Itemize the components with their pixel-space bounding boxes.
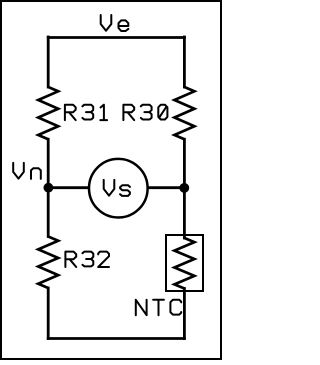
thermistor NTC zigzag	[174, 238, 194, 289]
node Vn junction dot	[44, 183, 54, 193]
label Vn	[13, 163, 41, 179]
wire right lower	[183, 289, 186, 339]
label R30	[123, 105, 167, 120]
label Ve	[101, 15, 129, 31]
wire right middle	[183, 139, 186, 238]
wire left upper	[47, 37, 50, 87]
wire bottom	[48, 337, 184, 340]
wire Vn node to Vs	[48, 186, 88, 189]
border frame (decorative)	[1, 1, 221, 359]
label R32	[65, 252, 109, 267]
wire right upper	[183, 37, 186, 87]
thermistor NTC body rectangle	[166, 235, 203, 291]
wire left lower	[47, 288, 50, 339]
label R31	[65, 105, 107, 120]
resistor R31	[38, 87, 58, 139]
label Vs	[104, 180, 130, 196]
node right junction dot	[179, 183, 189, 193]
resistor R30	[174, 87, 194, 139]
wire left middle	[47, 139, 50, 236]
wire top (Ve rail)	[48, 36, 184, 39]
resistor R32	[38, 237, 58, 289]
wire Vs to right node	[148, 186, 184, 189]
voltage source U1 (Vs) circle	[89, 159, 148, 218]
label NTC	[136, 300, 181, 315]
